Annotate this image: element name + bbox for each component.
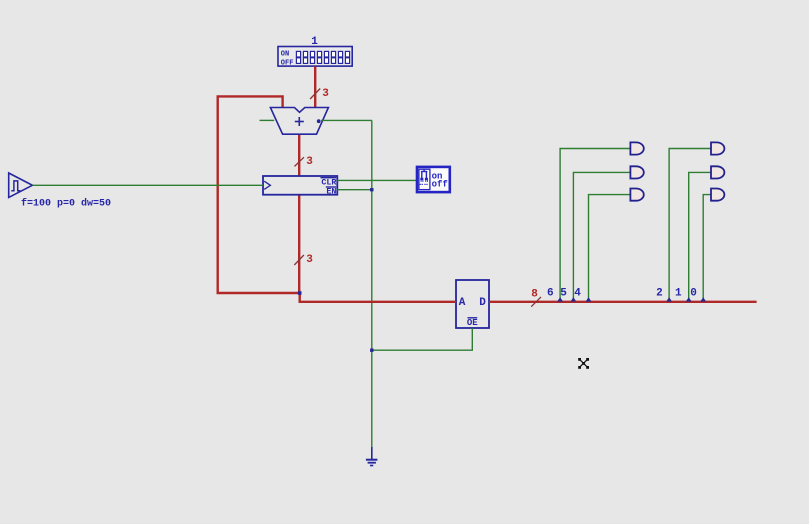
probe P0 [711,189,724,201]
bus: driver D to end [489,301,757,303]
svg-text:f=100 p=0 dw=50: f=100 p=0 dw=50 [21,198,111,210]
wire: register CLR to on/off switch [337,179,416,181]
wire: adder sum output down through register to junction [298,134,300,293]
svg-text:D: D [479,297,486,309]
bus width slash 8 [531,288,541,306]
svg-text:1: 1 [311,36,318,48]
svg-text:off: off [432,180,448,190]
svg-text:3: 3 [322,88,329,100]
svg-text:5: 5 [560,287,567,299]
bus tap triangle 4 [586,297,592,301]
probe P6 [630,142,643,154]
bus driver U3 [456,280,489,328]
bus width slash 3 (top) [310,88,329,100]
register U2 [263,176,337,197]
wire: register EN to node [337,189,372,191]
bus tap triangle 2 [666,297,672,301]
bus tap triangle 0 [700,297,706,301]
bus width slash 3 (lower) [294,254,313,266]
wire: node to OE [372,328,473,350]
svg-text:2: 2 [656,287,663,299]
bus tap triangle 1 [686,297,692,301]
adder U1 [270,108,328,135]
svg-text:3: 3 [306,254,313,266]
ground [366,447,378,466]
svg-text:8: 8 [531,288,538,300]
svg-text:ON: ON [281,50,289,58]
wire: adder carry-out to node column [321,119,372,121]
svg-text:OE: OE [467,318,478,328]
probe P2 [711,142,724,154]
wire: bus tap 5 to probe [573,172,630,301]
svg-text:A: A [459,297,466,309]
bus width slash 3 (middle) [295,156,314,168]
on/off switch S1 [417,167,450,192]
bus tap triangle 6 [557,297,563,301]
cursor X mark [578,358,589,369]
junction OE node [370,349,373,352]
svg-text:4: 4 [574,287,581,299]
svg-text:EN: EN [326,187,336,197]
wire: node column vertical [371,120,373,350]
bus tap triangle 5 [570,297,576,301]
wire: bus tap 4 to probe [589,195,631,301]
wire: node to ground [371,350,373,448]
wire: clock to register [32,184,263,186]
svg-text:0: 0 [690,287,697,299]
feedback wire loop [218,96,300,293]
svg-text:1: 1 [675,287,682,299]
svg-text:6: 6 [547,287,554,299]
wire: bus tap 0 to probe [703,195,711,301]
DIP switch SW1 [278,47,352,68]
junction feedback/bus [298,291,302,295]
probe P4 [630,189,643,201]
bus: junction to driver A [299,293,301,302]
probe P5 [630,166,643,178]
clock source [9,173,33,198]
adder carry-in stub [260,119,275,121]
svg-text:3: 3 [306,156,313,168]
svg-text:OFF: OFF [281,60,294,68]
probe P1 [711,166,724,178]
wire: bus tap 6 to probe [560,149,630,302]
junction EN node [370,188,373,191]
wire: bus tap 1 to probe [689,172,711,301]
wire: DIP switch to adder input [314,66,316,107]
wire: bus tap 2 to probe [669,149,711,302]
